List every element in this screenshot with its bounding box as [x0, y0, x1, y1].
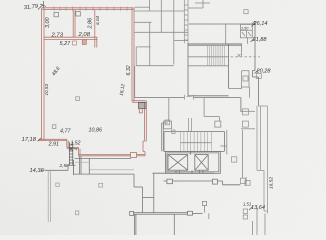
tick at 21,88	[251, 39, 255, 43]
bottom-left wall vertical pair	[48, 170, 50, 222]
furniture: small square in big room	[76, 97, 80, 101]
pilaster: small red block under rooms wall	[82, 39, 86, 44]
vent symbol: square in room 2.73	[54, 12, 59, 16]
building right edge	[252, 21, 259, 106]
wall: left exterior red double vertical	[42, 8, 44, 140]
square at right lower	[245, 181, 250, 186]
dimension label 10.53 (rotated along left wall)	[44, 84, 49, 96]
wall: right wall of room 2.08 going down	[95, 10, 97, 48]
bottom-left furniture squares	[56, 183, 59, 186]
room wall vertical x=225.7	[225, 24, 227, 44]
dimension label 2.86 (rotated)	[87, 18, 93, 30]
dimension label 13.64	[251, 205, 265, 211]
vent symbol: square in room 2.08	[76, 12, 81, 17]
tick after 14.36 label	[40, 170, 45, 172]
vestibule black rect with ticks	[138, 102, 146, 108]
area label 48,6 (handwritten)	[51, 66, 62, 78]
squares right of elevators	[231, 157, 236, 162]
square near red wall	[165, 120, 170, 125]
tick under 26,14	[252, 23, 256, 27]
tick at 31.79	[38, 1, 46, 10]
wall: right exterior red double vertical	[132, 8, 134, 102]
node square left	[130, 211, 134, 215]
small rooms right of corridor	[241, 87, 255, 129]
bottom apartment left wall pair	[74, 156, 134, 174]
stair outer walls	[188, 43, 242, 96]
wall: red step at bottom-left (17.18 corner)	[39, 139, 81, 156]
dimension label 17.18	[22, 137, 37, 143]
furniture: square above 4.77 label	[55, 125, 57, 127]
dimension label 6.32 (rotated, right wall)	[126, 65, 132, 75]
corridor bottom walls	[135, 96, 241, 112]
dimension label 1.51	[243, 202, 251, 207]
shaft square right	[215, 121, 221, 127]
door marks in corridor wall	[185, 95, 194, 100]
tick marks along top wall	[54, 7, 127, 11]
small bump on flight top-left	[172, 130, 175, 134]
dimension label 2.91	[48, 142, 60, 148]
tick at 20,28	[255, 70, 259, 74]
elevator shaft 1 with X	[168, 155, 188, 171]
dimension label 21.88	[252, 37, 268, 43]
right end step of bottom wall	[202, 201, 208, 219]
tick under 5.27	[73, 41, 77, 45]
squares right of corridor	[242, 109, 248, 115]
small rect under 20.28	[256, 74, 261, 79]
dimension label 6.04 (rotated, faint)	[95, 16, 100, 25]
grey wall pair left of elevators	[162, 123, 169, 151]
dimension label 4.77	[60, 129, 71, 135]
door: white square on red bottom wall	[131, 153, 137, 158]
dashed line right of stairs	[231, 56, 261, 58]
bottom long wall (double) with nodes	[133, 213, 203, 235]
rooms between corridor and lower stairs	[169, 98, 220, 121]
room divider: vertical between room 2.73 and room 2.08	[73, 10, 75, 38]
scribble: area mark below 1.52	[69, 147, 77, 151]
stair treads	[208, 45, 225, 66]
long wall y=181 with door blocks	[164, 181, 241, 185]
dimension label 14.36	[30, 168, 45, 174]
furniture: small square near left wall	[52, 125, 56, 129]
loggia vertical lines	[257, 106, 268, 214]
vent square top right	[244, 10, 248, 14]
dimension label 1.52	[71, 141, 81, 147]
dimension label 20.28	[256, 69, 272, 75]
room 1.50 rect	[240, 24, 252, 44]
dimension label 16.52 (rotated)	[269, 177, 275, 189]
upper stair rail: double vertical with rungs	[184, 0, 188, 43]
lower stair treads	[181, 132, 212, 152]
dimension label 2.73	[51, 33, 64, 39]
stepped outline down	[134, 173, 154, 212]
bottom right verticals	[253, 207, 266, 235]
red square below vestibule	[139, 109, 142, 113]
lower stair mid landing line	[181, 142, 212, 144]
dimension label 2.08	[78, 32, 91, 38]
top small room walls	[188, 0, 210, 8]
tick at 13,64	[249, 207, 253, 211]
elevator door ticks	[176, 170, 203, 173]
bottom right squares	[243, 209, 247, 213]
door block 1	[167, 179, 173, 184]
tick at 17,18	[38, 138, 42, 142]
lower stair flight	[164, 132, 224, 152]
wall right of stairs	[229, 44, 249, 89]
right lower walls	[245, 177, 247, 185]
dimension label 5.27	[60, 41, 72, 47]
wall: red bottom boundary with door	[79, 152, 146, 156]
14.36 wall line	[45, 165, 76, 170]
stair mid landing line	[188, 57, 229, 66]
room divider: top rooms bottom wall (red)	[44, 37, 98, 39]
corridor bottom wall under elevators	[153, 172, 215, 174]
wall: top exterior red double horizontal	[42, 8, 134, 10]
elevator shaft 2 with X	[195, 155, 208, 171]
dimension label 31.79	[24, 4, 40, 12]
duct vertical pair above flight	[189, 118, 192, 132]
corridor: top wall y=24	[189, 23, 255, 25]
dimension label 10.86	[89, 128, 103, 134]
label 1.50	[241, 26, 249, 30]
node square right	[188, 211, 193, 215]
small square right of stairs	[243, 76, 248, 81]
rooms right of red wall	[134, 0, 188, 98]
wall: red jog at right, to vestibule	[132, 101, 146, 152]
hatched wall strip bottom-left of red apartment	[69, 142, 73, 175]
dimension label 16.12 (rotated)	[119, 83, 127, 96]
dimension label 3.00 (rotated)	[45, 18, 51, 29]
dimension label 26.14	[253, 21, 268, 27]
door block 2	[213, 179, 218, 184]
elevator block outer walls	[165, 151, 220, 173]
shaft square left	[164, 121, 172, 129]
dimension label 2.58	[59, 163, 70, 169]
walls right of elevators	[220, 130, 242, 178]
marks left of dashes	[238, 54, 241, 57]
